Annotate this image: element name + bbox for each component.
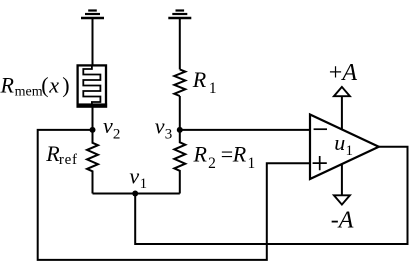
svg-text:v: v xyxy=(155,113,165,138)
wire GND1 to memristor top xyxy=(92,19,94,65)
wire op-amp bottom to -A supply xyxy=(341,164,343,195)
svg-text:x: x xyxy=(48,72,59,97)
label u1 xyxy=(334,130,353,159)
wire node v1 rail between Rref and R2 bottoms xyxy=(93,193,180,195)
svg-text:mem: mem xyxy=(15,84,43,99)
wire memristor bottom to node v2 xyxy=(92,108,94,130)
resistor R1 zigzag xyxy=(174,69,185,96)
memristor Rmem bottom electrode thick bar xyxy=(77,103,108,107)
svg-text:v: v xyxy=(129,163,139,188)
node v2 junction dot xyxy=(90,127,96,133)
svg-text:): ) xyxy=(62,72,69,97)
node v1 junction dot xyxy=(132,191,138,197)
-A supply down arrow xyxy=(334,195,350,204)
wire node v1 to op-amp output (right feedback path) xyxy=(135,147,407,244)
label v3 xyxy=(155,113,173,142)
svg-text:v: v xyxy=(103,113,113,138)
svg-text:R: R xyxy=(192,67,207,92)
op-amp U1 minus sign xyxy=(314,128,327,130)
svg-text:1: 1 xyxy=(346,143,354,159)
memristor Rmem meander xyxy=(83,66,100,106)
memristor Rmem box xyxy=(78,65,106,106)
resistor Rref zigzag xyxy=(87,130,98,194)
svg-text:u: u xyxy=(334,130,345,155)
svg-text:ref: ref xyxy=(59,152,78,168)
node v3 junction dot xyxy=(177,127,183,133)
svg-text:1: 1 xyxy=(248,155,256,172)
svg-text:R: R xyxy=(193,142,208,167)
wire node v3 to op-amp inverting input xyxy=(180,129,310,131)
svg-text:1: 1 xyxy=(140,176,148,192)
op-amp U1 triangle xyxy=(310,115,379,180)
svg-text:=: = xyxy=(221,142,233,167)
svg-text:1: 1 xyxy=(209,80,217,97)
label Rmem(x) xyxy=(0,72,70,99)
label v1 xyxy=(129,163,147,192)
label R2=R1 xyxy=(193,142,256,172)
wire +A supply to op-amp top xyxy=(341,96,343,129)
ground GND2 (R1 branch) xyxy=(168,11,191,19)
+A supply up arrow xyxy=(334,87,350,96)
svg-text:+A: +A xyxy=(329,60,358,86)
op-amp U1 plus sign xyxy=(313,156,327,170)
svg-text:R: R xyxy=(232,142,247,167)
svg-text:3: 3 xyxy=(165,127,173,143)
svg-text:2: 2 xyxy=(208,155,216,172)
resistor R2 zigzag xyxy=(174,130,185,194)
svg-text:-A: -A xyxy=(331,208,354,234)
ground GND1 (memristor branch) xyxy=(81,11,104,19)
svg-text:(: ( xyxy=(41,72,48,97)
svg-text:2: 2 xyxy=(113,126,121,142)
label v2 xyxy=(103,113,120,142)
label Rref xyxy=(45,141,77,168)
svg-text:R: R xyxy=(0,72,15,97)
wire GND2 to resistor R1 xyxy=(179,19,181,69)
wire R1 bottom to node v3 xyxy=(179,96,181,130)
wire node v2 to op-amp non-inverting input (left-bottom feedback path) xyxy=(38,130,310,260)
label R1 xyxy=(192,67,217,97)
